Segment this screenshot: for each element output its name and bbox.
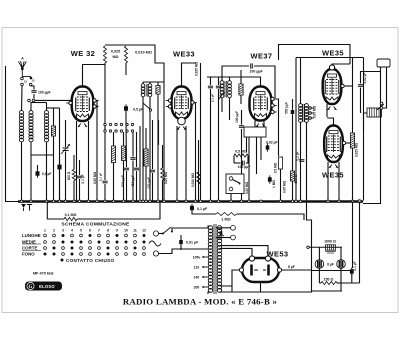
wire C9b to bus <box>218 89 220 201</box>
wire contact to cap C1 <box>31 86 34 90</box>
wire C2b upper <box>59 158 61 164</box>
wire T1 secondary top stub <box>149 82 151 84</box>
table row CORTE dots <box>22 246 145 251</box>
tube V4 WE35 output <box>323 65 342 104</box>
svg-text:10: 10 <box>124 229 128 233</box>
wire C20 top stub <box>340 247 342 259</box>
tube V6 WE53 rectifier <box>239 256 281 282</box>
svg-text:200: 200 <box>194 286 200 290</box>
bus junction bead 35 <box>327 200 330 203</box>
band switch contact 1 <box>104 123 106 125</box>
bus junction bead 32 <box>291 200 294 203</box>
resistor R4a 0,025 Mohm <box>104 46 107 63</box>
transformer T1 oscillator primary <box>141 84 145 97</box>
svg-text:WE37: WE37 <box>250 52 272 61</box>
bus junction bead 26 <box>217 200 220 203</box>
wire C16 bottom <box>360 88 362 114</box>
wire C16 top <box>360 71 362 84</box>
ground bus <box>18 200 363 202</box>
transformer T3 tap 2 <box>309 112 314 115</box>
svg-text:0,025 MΩ: 0,025 MΩ <box>195 62 199 77</box>
phono jack contact 2 <box>231 235 236 240</box>
wire tone switch blade <box>233 180 240 184</box>
band switch contact lower 1 <box>104 130 106 132</box>
wire V1 heater down <box>88 121 90 201</box>
bus junction bead 9 <box>87 200 90 203</box>
band switch contact lower 3 <box>115 130 117 132</box>
wire phono lead 1 <box>216 227 231 229</box>
wire branch x133 <box>132 132 134 157</box>
wire branch x152 upper <box>152 120 154 169</box>
wire T5 sec lead 2b <box>220 248 253 256</box>
wire V1 plate up <box>83 65 106 87</box>
wire R4b down <box>125 63 127 75</box>
wire R10 down <box>240 95 242 104</box>
svg-text:6: 6 <box>89 229 91 233</box>
resistor R21 ladder <box>111 146 115 163</box>
wire branch x74 upper <box>73 155 75 170</box>
table row MEDIE dots <box>22 240 146 245</box>
wire R23 bottom to bus <box>145 166 147 201</box>
svg-text:2: 2 <box>53 229 55 233</box>
band switch contact 2 <box>109 123 111 125</box>
wire branch x74 lower <box>73 181 75 201</box>
svg-text:FONO: FONO <box>22 252 35 257</box>
coil L1 antenna long-wave <box>19 111 23 142</box>
wire R7a top <box>157 82 159 86</box>
resistor R7a feedback <box>156 86 160 95</box>
wire B+ top rail <box>296 57 364 59</box>
bus junction big bead <box>358 200 361 203</box>
IF transformer T3 primary <box>299 104 303 123</box>
antenna switch contact left <box>21 77 24 80</box>
wire C11 up <box>241 110 243 125</box>
svg-text:0,05 MΩ: 0,05 MΩ <box>313 105 317 118</box>
resistor R13 <box>290 171 294 181</box>
wire C1 down to contacts <box>33 94 35 99</box>
bus junction bead 30 <box>260 200 263 203</box>
wire R8 feed <box>198 140 200 201</box>
coil L2 antenna medium-wave <box>29 111 33 142</box>
wire V1 cathode down <box>76 121 78 201</box>
antenna switch contact right <box>30 77 33 80</box>
wire branch x140 <box>139 126 141 201</box>
svg-text:410 µµF: 410 µµF <box>131 175 135 187</box>
wire branch x133b <box>132 161 134 201</box>
bus junction bead 3 <box>45 200 48 203</box>
capacitor C14 <box>268 175 272 183</box>
wire branch x152 lower <box>152 173 154 201</box>
bus junction bead 4 <box>52 200 55 203</box>
svg-text:0,1 µF: 0,1 µF <box>211 94 215 103</box>
tube V3 side pin 1 <box>271 97 277 100</box>
svg-text:WE35: WE35 <box>322 171 344 180</box>
wire R22 top <box>123 132 125 146</box>
svg-text:105v: 105v <box>193 256 201 260</box>
table row underline CORTE <box>22 250 41 252</box>
wire T2 secondary bottom <box>229 98 231 121</box>
bus junction bead 37 <box>351 200 354 203</box>
wire R11 loop to cap <box>234 162 241 164</box>
svg-text:0,1 µF: 0,1 µF <box>42 172 51 176</box>
capacitor C1 100 pF antenna <box>31 91 36 93</box>
wire V3 top <box>235 77 261 87</box>
svg-text:0,025 MΩ: 0,025 MΩ <box>355 143 359 158</box>
svg-text:WE33: WE33 <box>173 50 195 59</box>
wire R21 top <box>113 132 115 146</box>
wire T2 primary top <box>221 77 223 81</box>
capacitor C18 0,01 uF <box>179 238 183 246</box>
bus junction bead 22 <box>185 200 188 203</box>
wire x296 drop <box>295 58 297 201</box>
wire osc branch x164 <box>163 82 165 201</box>
speaker terminal 1 <box>380 102 383 105</box>
svg-text:8 µF: 8 µF <box>327 263 334 267</box>
mains plug pin 1 <box>153 231 158 236</box>
svg-text:150 Ω: 150 Ω <box>324 278 334 282</box>
capacitor C9b <box>216 86 221 88</box>
svg-text:100 µµF: 100 µµF <box>235 111 239 123</box>
tone switch box <box>226 174 244 194</box>
band switch contact lower 6 <box>131 130 133 132</box>
wire V2 cathode down <box>176 126 178 201</box>
wire screen feed x352 <box>352 58 354 201</box>
capacitor C16 0,02 uF <box>358 85 363 87</box>
svg-text:300 Ω: 300 Ω <box>67 171 71 180</box>
svg-text:0,05 MΩ: 0,05 MΩ <box>93 171 97 184</box>
wire V2 heater down <box>185 126 187 201</box>
wire R11 loop left <box>233 156 235 164</box>
bus junction bead 10 <box>96 200 99 203</box>
tube V3 base box <box>244 127 266 137</box>
speaker terminal 2 <box>380 107 383 110</box>
wire phono lead 2 <box>216 237 231 239</box>
bus junction bead 2 <box>30 200 33 203</box>
capacitor C19 8 uF <box>315 260 324 269</box>
svg-text:G: G <box>29 285 33 290</box>
svg-text:MF 470 kHz: MF 470 kHz <box>33 272 54 276</box>
wire T5 primary bottom <box>208 292 211 294</box>
wire TB1 pin 2 down <box>383 67 387 108</box>
capacitor C5 820 pF padder <box>124 168 129 170</box>
table column numbers 1-12 <box>44 229 146 233</box>
wire branch x79 upper <box>79 160 81 175</box>
band switch contact 6 <box>131 123 133 125</box>
svg-text:0,5 MΩ: 0,5 MΩ <box>235 150 247 154</box>
tube V2 side pin right <box>191 101 197 104</box>
band switch contact 3 <box>115 123 117 125</box>
tube V5 side pin <box>342 141 348 144</box>
capacitor C3b <box>102 181 107 183</box>
wire R7a bottom <box>157 94 159 201</box>
wire R6 to bus <box>162 180 164 201</box>
resistor R8 0,020 Mohm <box>197 172 201 184</box>
wire T1 primary bottom <box>142 97 144 201</box>
wire R19 stub left <box>319 282 321 284</box>
wire C20 to bottom rail <box>340 283 342 291</box>
tube V2 cathode ring <box>178 117 186 125</box>
capacitor C9 <box>208 86 213 88</box>
bus junction bead 20 <box>163 200 166 203</box>
wire C9 branch <box>210 77 212 85</box>
wire T1 primary top stub <box>142 82 144 84</box>
wire V3 pin to x278 <box>275 99 279 156</box>
capacitor C3 0,1 uF <box>77 176 82 178</box>
bus junction bead 12 <box>112 200 115 203</box>
tone switch pivot <box>239 183 241 185</box>
wire bottom right rail <box>341 282 360 284</box>
wire R12 to bus <box>280 169 282 201</box>
transformer tap 200 <box>202 286 209 288</box>
svg-text:4: 4 <box>71 229 73 233</box>
capacitor C11 100 uuF <box>239 126 244 128</box>
wire trimmer branch upper <box>65 120 67 147</box>
IF transformer T3 secondary <box>305 104 309 123</box>
filter rail bead <box>307 246 310 249</box>
transformer tap 105v <box>202 256 209 258</box>
svg-text:9: 9 <box>116 229 118 233</box>
wire R16 loop <box>47 202 64 220</box>
wire C9b branch <box>218 77 220 85</box>
wire T5 sec lead 2 <box>220 246 269 256</box>
wire T1 secondary bottom <box>149 97 151 201</box>
wire switch feed <box>104 126 106 130</box>
antenna switch lower right <box>29 83 32 86</box>
wire T5 top lead <box>208 226 211 228</box>
capacitor C21 0,1 uF <box>350 267 354 275</box>
wire C17 down <box>192 211 216 215</box>
ground symbol <box>21 204 26 211</box>
bus junction bead 29 <box>248 200 251 203</box>
svg-text:550 µµF: 550 µµF <box>285 102 289 114</box>
svg-text:RADIO LAMBDA - MOD. « E 74: RADIO LAMBDA - MOD. « E 746-B » <box>123 297 277 307</box>
bus junction bead 13 <box>122 200 125 203</box>
tube V5 WE35 output <box>324 126 343 163</box>
bus junction bead 15 <box>139 200 142 203</box>
wire V1 screen down <box>96 101 98 201</box>
wire L3 to bus <box>46 142 48 201</box>
transformer T5 core <box>214 224 216 294</box>
capacitor C4 0,5 uF <box>124 104 128 113</box>
wire R21 bottom to bus <box>113 163 115 201</box>
wire plate rail top <box>105 45 164 82</box>
bus junction bead 11 <box>104 200 107 203</box>
svg-text:11: 11 <box>133 229 137 233</box>
wire branch x79 lower <box>79 179 81 201</box>
wire L2 top <box>30 102 32 111</box>
tube V1 side pin 2 <box>93 105 99 108</box>
wire C18 stub low <box>180 245 182 250</box>
wire 100pF loop <box>222 66 249 81</box>
svg-text:1 MΩ: 1 MΩ <box>272 180 276 188</box>
wire branch x105 upper <box>104 160 106 180</box>
bus junction bead 24 <box>199 200 202 203</box>
wire R17 right <box>237 214 305 220</box>
phono jack contact 1 <box>231 225 236 230</box>
power switch S1 <box>162 227 173 235</box>
mains plug pin 2 <box>153 251 158 256</box>
band switch contact lower 5 <box>126 130 128 132</box>
wire T3 secondary bottom <box>307 122 312 247</box>
capacitor C23 <box>130 158 135 160</box>
transformer T1 core <box>146 84 148 97</box>
transformer T3 core <box>303 104 304 122</box>
wire V3 base pin a <box>246 137 248 153</box>
svg-text:5: 5 <box>80 229 82 233</box>
wire C2b lower <box>59 170 61 201</box>
wire V5 pin right <box>347 142 353 144</box>
svg-text:100 µµF: 100 µµF <box>38 91 51 95</box>
resistor R23 ladder <box>144 149 148 166</box>
wire filter left vert <box>311 247 313 291</box>
svg-text:1: 1 <box>44 229 46 233</box>
wire switch to transformer top <box>172 228 208 232</box>
capacitor C2b 0,1 uF <box>57 163 61 172</box>
svg-text:ELOSO: ELOSO <box>39 284 55 289</box>
terminal block TB1 <box>377 59 390 67</box>
svg-text:0,020 MΩ: 0,020 MΩ <box>191 173 195 188</box>
wire vertical branch x59 <box>59 108 61 201</box>
band switch contact 4 <box>120 123 122 125</box>
tube V1 left grid pin <box>66 101 72 104</box>
wire screen drop x200 <box>200 63 202 201</box>
wire V3 bottom left <box>254 121 256 128</box>
manufacturer logo badge <box>25 282 62 291</box>
svg-text:100 µµF: 100 µµF <box>238 165 251 169</box>
wire C15 branch <box>292 99 294 109</box>
svg-text:8: 8 <box>107 229 109 233</box>
wire T2 secondary top <box>229 77 231 81</box>
wire plate loop WE37-WE35 <box>279 45 351 65</box>
wire branch x105 lower <box>104 184 106 201</box>
svg-text:0,05 MΩ: 0,05 MΩ <box>283 180 287 193</box>
wire branch x158b <box>158 120 160 145</box>
tube V1 WE32 pentode <box>72 87 94 122</box>
wire T4 left down to bus <box>364 113 368 201</box>
bus junction bead 28 <box>240 200 243 203</box>
bus junction bead 19 <box>157 200 160 203</box>
svg-text:0,1 MΩ: 0,1 MΩ <box>65 213 77 217</box>
svg-text:LUNGHE: LUNGHE <box>22 233 41 238</box>
wire V5 cathode down <box>327 162 329 201</box>
IF transformer T2 secondary <box>228 81 232 98</box>
output transformer arrow <box>377 104 384 110</box>
wire V4 cathode down <box>326 104 328 117</box>
wire V3 bottom right <box>263 121 265 128</box>
svg-text:SCHEMA COMMUTAZIONE: SCHEMA COMMUTAZIONE <box>61 221 130 227</box>
transformer tap 140 <box>202 276 209 278</box>
chassis terminal <box>27 205 32 211</box>
svg-text:0,010 MΩ: 0,010 MΩ <box>135 51 152 55</box>
svg-text:WE35: WE35 <box>322 49 344 58</box>
table row LUNGHE dots <box>22 233 146 238</box>
bus junction bead 16 <box>142 200 145 203</box>
antenna <box>19 57 32 77</box>
tube V2 side pin left 2 <box>166 105 172 108</box>
wire V2 side pin down <box>195 103 197 201</box>
svg-text:12: 12 <box>142 229 146 233</box>
bus junction bead 7 <box>73 200 76 203</box>
bus junction bead 34 <box>299 200 302 203</box>
transformer T3 tap 3 <box>309 117 314 120</box>
svg-text:820 µµF: 820 µµF <box>121 175 125 187</box>
wire R6 lead <box>162 145 164 168</box>
svg-text:0,02 µF: 0,02 µF <box>363 73 367 84</box>
capacitor C6 410 pF padder <box>134 168 139 170</box>
bus junction bead 1 <box>20 200 23 203</box>
wire L3 top <box>46 103 48 112</box>
wire T5 sec lead 3 <box>220 286 233 292</box>
wire V3 base down 2 <box>260 137 262 160</box>
capacitor C12 0,02 uF <box>266 143 270 151</box>
transformer tap 110 <box>202 266 209 268</box>
wire R16 loop right <box>77 202 160 220</box>
wire grid row y108 <box>47 107 60 109</box>
wire antenna contact to coil L1 <box>21 86 24 111</box>
resistor R12 0,5 Mohm <box>278 157 282 169</box>
capacitor C24 phono <box>220 231 222 235</box>
wire R4a to bus <box>104 63 106 160</box>
svg-text:0,02 MΩ: 0,02 MΩ <box>245 181 249 194</box>
capacitor C20 8 uF <box>337 260 346 269</box>
svg-text:0,1 µF: 0,1 µF <box>353 261 357 270</box>
wire grid feed to V1 <box>35 99 72 101</box>
bus junction bead 6 <box>64 200 67 203</box>
svg-text:0,1 µF: 0,1 µF <box>81 174 85 183</box>
bus junction bead 8 <box>78 200 81 203</box>
bus junction bead 23 <box>194 200 197 203</box>
band switch contact lower 4 <box>120 130 122 132</box>
transformer T1 oscillator secondary <box>148 84 152 97</box>
AC source sine <box>149 241 161 246</box>
wire L2 to bus <box>30 142 32 201</box>
wire filter bottom rail <box>312 290 343 292</box>
wire C4 down <box>125 111 127 122</box>
capacitor C22 0,2 uF <box>299 160 304 162</box>
svg-text:1000 Ω: 1000 Ω <box>324 240 336 244</box>
wire C20 bottom <box>340 268 342 270</box>
tube V2 WE33 heptode <box>172 87 192 120</box>
wire C19 top stub <box>318 247 320 259</box>
bus junction bead 27 <box>230 200 233 203</box>
wire T3 primary bottom <box>300 122 302 201</box>
tone switch contact 1 <box>229 177 233 181</box>
capacitor C13 100 uuF <box>242 161 244 166</box>
band switch contact lower 2 <box>109 130 111 132</box>
svg-text:MΩ: MΩ <box>112 55 118 59</box>
wire R23 top <box>145 128 147 149</box>
wire R1 to bus <box>53 136 55 201</box>
band switch contact 5 <box>126 123 128 125</box>
wire R22 bottom to bus <box>123 161 125 201</box>
wire trimmer branch lower <box>65 152 67 201</box>
wire V3 base pin b <box>256 137 258 174</box>
capacitor C2 0,1 uF <box>36 169 40 178</box>
bus junction bead 21 <box>176 200 179 203</box>
resistor R19 150 ohm <box>321 281 337 284</box>
wire coil bottoms link <box>31 154 54 156</box>
svg-text:0,5 MΩ: 0,5 MΩ <box>274 162 278 173</box>
wire C11 down <box>241 129 243 201</box>
oscillator switch blade <box>143 103 152 111</box>
wire C6 lower <box>136 171 138 201</box>
svg-text:100 µµF: 100 µµF <box>249 70 263 74</box>
wire C18 stubs <box>180 235 182 239</box>
svg-text:0,5 µF: 0,5 µF <box>133 108 144 112</box>
tube V1 side pin 1 <box>93 99 99 102</box>
wire T5 sec bottom rail <box>220 291 312 292</box>
wire grid link row <box>31 102 47 104</box>
